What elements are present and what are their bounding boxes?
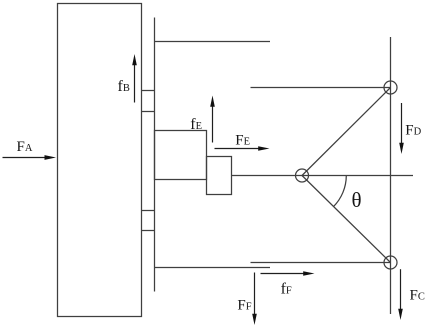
pivot circle top D xyxy=(384,81,397,94)
svg-text:FE: FE xyxy=(235,133,250,149)
force arrow fF xyxy=(261,271,315,276)
pivot circle bottom C xyxy=(384,256,397,269)
lower diagonal link xyxy=(302,176,391,263)
force arrow fB xyxy=(132,54,137,103)
angle arc theta xyxy=(333,176,346,207)
svg-text:FD: FD xyxy=(405,123,421,139)
pad B bottom edge xyxy=(142,111,155,113)
push rod xyxy=(232,175,414,177)
svg-text:θ: θ xyxy=(352,188,362,212)
pad lower top edge xyxy=(142,210,155,212)
guide rail xyxy=(154,18,156,292)
bottom frame line xyxy=(155,267,271,269)
boss block on rail xyxy=(155,131,207,180)
wedge square E xyxy=(207,157,232,195)
svg-text:FA: FA xyxy=(17,139,33,155)
svg-text:fE: fE xyxy=(190,116,202,133)
svg-text:FC: FC xyxy=(410,288,425,304)
pivot circle center xyxy=(296,169,309,182)
force arrow FC xyxy=(398,269,403,320)
force arrow FF xyxy=(252,273,257,326)
lower link bar xyxy=(251,262,391,264)
upper link bar xyxy=(251,87,391,89)
force arrow FE xyxy=(215,146,270,151)
slider block xyxy=(58,4,142,317)
pad lower bottom edge xyxy=(142,230,155,232)
svg-text:fB: fB xyxy=(118,78,130,95)
force arrow FA xyxy=(3,155,57,160)
pad B top edge xyxy=(142,90,155,92)
right vertical frame line xyxy=(390,37,392,314)
force arrow FD xyxy=(399,103,404,154)
force arrow fE xyxy=(210,96,215,143)
upper diagonal link xyxy=(302,88,391,176)
top frame line xyxy=(155,41,271,43)
svg-text:FF: FF xyxy=(237,297,251,313)
svg-text:fF: fF xyxy=(281,281,292,298)
